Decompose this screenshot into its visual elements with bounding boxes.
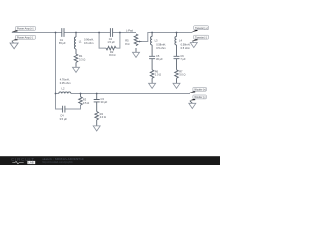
svg-text:1.5 µF: 1.5 µF — [107, 40, 115, 44]
svg-text:LAB: LAB — [28, 161, 33, 165]
svg-text:0.35 ohm: 0.35 ohm — [60, 81, 71, 85]
wire rail C1 to RC block — [64, 32, 110, 34]
ground under pot — [133, 52, 140, 57]
capacitor C4 plates — [63, 106, 65, 113]
resistor R3 0.5 ohm — [79, 97, 83, 105]
svg-text:0.5 ohm: 0.5 ohm — [156, 46, 165, 50]
inductor L2 coil — [59, 92, 71, 94]
wire R6 to ground — [151, 78, 153, 83]
svg-text:R1: R1 — [79, 54, 83, 58]
svg-text:0.5 ohm: 0.5 ohm — [181, 46, 190, 50]
svg-text:Woofer [-]: Woofer [-] — [194, 96, 205, 99]
node junction dot woofer tap — [55, 32, 57, 34]
resistor R2 8 ohm — [106, 46, 116, 50]
svg-text:4.0 Ω: 4.0 Ω — [100, 115, 106, 119]
svg-text:3.0 Ω: 3.0 Ω — [179, 73, 185, 77]
ground input negative — [12, 41, 14, 43]
wire L4 to C6 — [176, 45, 178, 56]
wire L1 to R1 — [75, 49, 77, 54]
node flag Tweeter - — [192, 35, 209, 41]
inductor L1 coil — [74, 37, 76, 49]
ground under R4 — [93, 126, 100, 131]
wire R7 to ground — [176, 78, 178, 83]
svg-text:Woofer [+]: Woofer [+] — [194, 88, 206, 91]
node flag Power Amp + — [11, 26, 35, 32]
capacitor C3 plates — [94, 100, 100, 102]
wire top rail left segment — [12, 32, 62, 34]
svg-text:8.0 Ω: 8.0 Ω — [109, 53, 115, 57]
svg-text:3.5 µF: 3.5 µF — [60, 117, 68, 121]
svg-text:1.0 Ω: 1.0 Ω — [155, 73, 161, 77]
capacitor C1 65 uF plates — [62, 28, 64, 37]
ground under R1 — [73, 67, 80, 72]
ground tweeter negative — [193, 41, 194, 42]
inductor L3 coil — [151, 37, 153, 45]
wire L1 branch stub — [75, 33, 77, 38]
svg-text:0.5 Ω: 0.5 Ω — [83, 101, 89, 105]
svg-text:30 µF: 30 µF — [101, 100, 108, 104]
potentiometer R5 L-Pad body — [134, 34, 138, 46]
svg-text:http://circuitlab.com/cpq3nb: http://circuitlab.com/cpq3nb — [42, 161, 73, 164]
resistor R6 1.0 ohm — [150, 70, 154, 78]
svg-text:0.6 ohm: 0.6 ohm — [84, 41, 93, 45]
node flag Woofer - — [189, 95, 206, 101]
watermark bar — [0, 156, 220, 165]
svg-text:30 µF: 30 µF — [156, 57, 163, 61]
wire C6 to R7 — [176, 59, 178, 70]
wire C3 stub — [96, 94, 98, 100]
wire branch A stub — [151, 33, 153, 37]
logo waveform — [12, 161, 23, 163]
svg-text:0.58mH,: 0.58mH, — [181, 42, 191, 46]
wire bottom woofer rail — [56, 93, 191, 95]
resistor R1 3.3 ohm — [74, 54, 78, 62]
node flag Power Amp - — [11, 35, 35, 40]
svg-text:8 Ω: 8 Ω — [125, 42, 129, 46]
node junction dot L1 branch — [75, 32, 77, 34]
wire RC block lower branch — [99, 33, 120, 49]
svg-text:Tweeter [+]: Tweeter [+] — [195, 27, 208, 30]
svg-text:Power Amp [-]: Power Amp [-] — [17, 36, 33, 39]
svg-text:Tweeter [-]: Tweeter [-] — [195, 36, 207, 39]
wire riser wiper to rail right segment — [142, 33, 193, 42]
wire R4 to ground — [96, 120, 98, 126]
node junction dot tweeter branch B — [176, 32, 178, 34]
svg-text:0.96mH,: 0.96mH, — [84, 38, 94, 42]
ground branch B — [173, 83, 180, 88]
node junction dot R3 tap — [80, 93, 82, 95]
wire C3 to R4 — [96, 102, 98, 112]
svg-text:4.76mH,: 4.76mH, — [60, 78, 70, 82]
wire branch B stub — [176, 33, 178, 37]
capacitor C2 1.5 uF plates — [110, 28, 112, 37]
wire C5 to R6 — [151, 59, 153, 70]
wire L3 to C5 — [151, 45, 153, 56]
node junction dot RC block left — [98, 32, 100, 34]
logo LAB box — [27, 161, 35, 164]
node junction dot C3 branch — [96, 93, 98, 95]
inductor L4 coil — [175, 37, 177, 45]
svg-text:7 µF: 7 µF — [180, 57, 186, 61]
capacitor C6 plates — [174, 56, 180, 58]
capacitor C5 plates — [149, 56, 155, 58]
svg-text:L-Pad: L-Pad — [126, 29, 133, 33]
node junction dot bottom corner — [55, 93, 57, 95]
resistor R4 4.0 ohm — [95, 112, 99, 120]
wire R1 to ground — [75, 63, 77, 68]
resistor R7 3.0 ohm — [175, 70, 179, 78]
wire rail C2 to pot top — [112, 32, 136, 34]
node junction dot tweeter branch A — [151, 32, 153, 34]
node flag Woofer + — [189, 87, 206, 93]
ground branch A — [149, 83, 156, 88]
node junction dot RC block right — [119, 32, 121, 34]
wire pot to ground — [135, 48, 137, 52]
ground woofer negative — [190, 101, 192, 103]
svg-text:3.3 Ω: 3.3 Ω — [79, 57, 85, 61]
svg-text:65 µF: 65 µF — [59, 41, 66, 45]
wire woofer tap vertical — [55, 33, 57, 94]
svg-text:0.58mH,: 0.58mH, — [156, 42, 166, 46]
wire bypass loop — [56, 94, 81, 110]
potentiometer wiper arrow — [139, 41, 141, 43]
wire R3 stub — [80, 94, 82, 97]
node flag Tweeter + — [192, 26, 209, 32]
svg-text:Power Amp [+]: Power Amp [+] — [17, 28, 34, 31]
